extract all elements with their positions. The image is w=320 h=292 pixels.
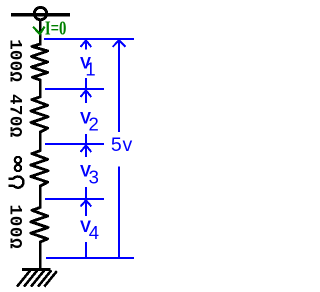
svg-text:5v: 5v xyxy=(111,134,133,156)
svg-text:3: 3 xyxy=(89,166,99,187)
svg-text:2: 2 xyxy=(89,113,99,134)
svg-text:I=0: I=0 xyxy=(45,18,67,40)
svg-text:1: 1 xyxy=(85,59,95,80)
svg-text:470Ω: 470Ω xyxy=(5,94,25,138)
svg-text:100Ω: 100Ω xyxy=(5,39,25,82)
svg-text:4: 4 xyxy=(89,222,99,243)
svg-text:100Ω: 100Ω xyxy=(5,205,25,250)
